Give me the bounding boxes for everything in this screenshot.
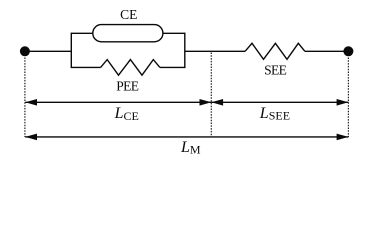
svg-text:PEE: PEE [116,78,139,93]
extension line at left terminal (dotted) [24,58,26,138]
svg-text:SEE: SEE [264,62,287,77]
wire: top branch right segment [163,32,185,34]
extension line at parallel/series boundary (dotted) [210,53,212,138]
wire: parallel block to resistor SEE [185,50,245,52]
dimension arrow L_M (double-headed) [25,134,348,141]
wire: bottom branch left segment [71,66,100,68]
extension line at right terminal (dotted) [347,58,349,138]
node: right terminal dot [343,46,353,56]
resistor PEE (zigzag) [101,60,160,76]
svg-text:LM: LM [180,139,201,157]
wire: parallel block left vertical [70,33,72,69]
dimension arrow L_CE (double-headed) [25,99,211,106]
wire: bottom branch right segment [160,66,185,68]
svg-text:LSEE: LSEE [259,105,290,123]
svg-text:LCE: LCE [114,105,139,123]
wire: parallel block right vertical [184,33,186,69]
element CE (stadium body) [93,25,163,42]
wire: resistor SEE to right terminal [305,50,349,52]
wire: top branch left segment [71,32,93,34]
resistor SEE (zigzag) [245,43,305,59]
wire: left terminal to parallel block [25,50,71,52]
node: left terminal dot [20,46,30,56]
dimension arrow L_SEE (double-headed) [211,99,348,106]
svg-text:CE: CE [120,7,137,22]
